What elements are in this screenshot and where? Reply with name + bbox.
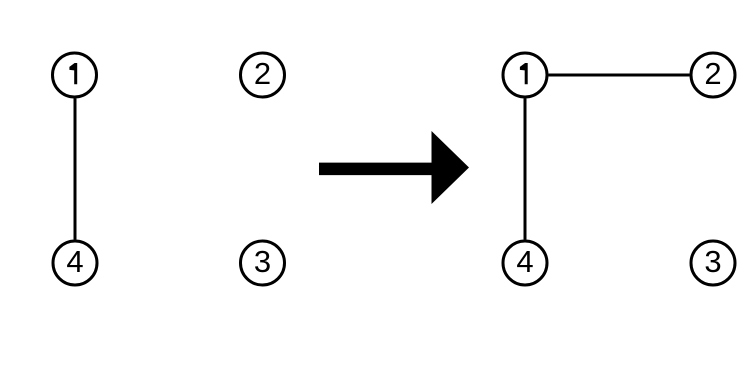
svg-text:3: 3 bbox=[704, 244, 721, 279]
svg-text:4: 4 bbox=[66, 244, 83, 279]
svg-text:4: 4 bbox=[516, 244, 533, 279]
svg-text:2: 2 bbox=[254, 56, 271, 91]
svg-text:2: 2 bbox=[704, 56, 721, 91]
svg-text:3: 3 bbox=[254, 244, 271, 279]
